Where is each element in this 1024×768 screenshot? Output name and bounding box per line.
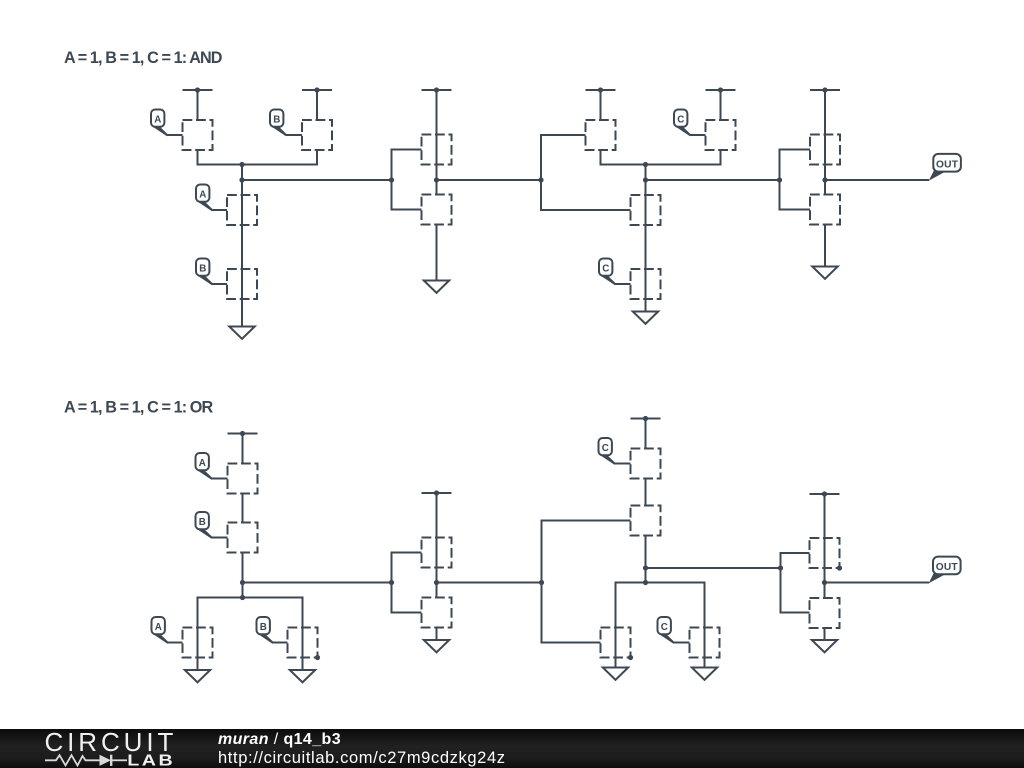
- svg-text:LAB: LAB: [127, 751, 175, 768]
- transistor Q24 NMOS (output inverter) (open switch): [810, 598, 840, 628]
- ground GND3: [633, 312, 658, 324]
- junction stage3 gate fork (OR): [539, 580, 544, 585]
- svg-text:B: B: [199, 517, 206, 528]
- wire stage2 gate fork to Q5,Q6: [392, 150, 422, 210]
- label tag A (gate of Q1): [151, 110, 169, 137]
- svg-text:muran / q14_b3: muran / q14_b3: [218, 731, 341, 748]
- junction node N2 (stage2 output): [434, 177, 439, 182]
- label tag B (gate of Q4): [196, 259, 214, 286]
- transistor Q3 NMOS gate A (closed switch): [227, 195, 257, 225]
- junction stray node at Q16 corner: [315, 655, 320, 660]
- wire bus N2 to stage3 gates: [437, 179, 542, 181]
- junction node N1 (PMOS drains join): [239, 162, 244, 167]
- wire OUT to Q24 drain: [824, 583, 826, 599]
- svg-text:OUT: OUT: [936, 159, 959, 170]
- transistor Q12 NMOS (output inverter) (open switch): [810, 195, 840, 225]
- ground GND7: [424, 640, 449, 652]
- transistor Q16 NMOS gate B (closed switch): [288, 628, 318, 658]
- transistor Q20 PMOS gate N5 (open switch): [631, 506, 661, 536]
- VDD supply bar V10 (stage4 PMOS): [810, 491, 840, 496]
- junction node OUT (OR): [822, 580, 827, 585]
- transistor Q22 NMOS gate C (closed switch): [690, 628, 720, 658]
- svg-text:C: C: [602, 263, 609, 274]
- transistor Q10 NMOS gate C (closed switch): [631, 269, 661, 299]
- wire NMOS fork bar to Q15,Q16 grounds: [198, 598, 303, 671]
- wire NMOS fork bar to Q21,Q22 grounds: [616, 583, 705, 668]
- wire V3 through Q5 to node N2: [436, 90, 438, 180]
- junction stage3 gate fork: [538, 177, 543, 182]
- wire gate of A (gate of Q15): [168, 642, 183, 644]
- transistor Q13 PMOS gate A (open switch): [228, 464, 258, 494]
- wire V2 to Q2 drain: [316, 90, 318, 120]
- svg-text:A: A: [155, 622, 162, 633]
- svg-text:B: B: [199, 263, 206, 274]
- wire gate of B (gate of Q4): [212, 283, 227, 285]
- wire V1 to Q1 drain: [197, 90, 199, 120]
- wire N5 to Q18 drain: [436, 583, 438, 598]
- label tag B (gate of Q16): [257, 617, 275, 644]
- svg-text:B: B: [273, 114, 280, 125]
- transistor Q17 PMOS (inverter) (closed switch): [422, 538, 452, 568]
- VDD supply bar V9 (stage3 PMOS series): [631, 416, 661, 421]
- ground GND4: [812, 267, 837, 279]
- transistor Q7 PMOS gate N2 (open switch): [586, 120, 616, 150]
- junction node N3 on bus: [643, 177, 648, 182]
- svg-text:OUT: OUT: [936, 562, 959, 573]
- transistor Q18 NMOS (inverter) (open switch): [422, 598, 452, 628]
- wire gate of B (gate of Q2): [286, 134, 302, 136]
- transistor Q11 PMOS (output inverter) (closed switch): [810, 135, 840, 165]
- label tag C (gate of Q10): [599, 259, 617, 286]
- junction stage2 gate fork (OR): [389, 580, 394, 585]
- transistor Q19 PMOS gate C (open switch): [631, 449, 661, 479]
- footer bar: [0, 729, 1024, 768]
- transistor Q1 PMOS gate A (open switch): [183, 120, 213, 150]
- VDD supply bar V1 (stage1 PMOS A): [183, 87, 213, 92]
- label tag B (gate of Q2): [270, 110, 288, 137]
- wire stage2 gate fork to Q17,Q18: [392, 553, 422, 613]
- wire N1 through Q3,Q4 to ground: [241, 180, 243, 327]
- ground GND1: [229, 327, 254, 339]
- wire Q12 source to ground: [824, 225, 826, 267]
- svg-text:A: A: [154, 114, 161, 125]
- transistor Q23 PMOS (output inverter) (closed switch): [810, 538, 840, 568]
- wire Q19 source to Q20 drain: [645, 479, 647, 506]
- junction node N1 on bus: [239, 177, 244, 182]
- svg-text:http://circuitlab.com/c27m9cdz: http://circuitlab.com/c27m9cdzkg24z: [218, 749, 506, 767]
- VDD supply bar V3 (stage2 PMOS): [422, 87, 452, 92]
- wire N1 down to bus: [241, 165, 243, 181]
- wire bus N1 to stage2 gates: [242, 179, 392, 181]
- transistor Q9 NMOS gate N2 (closed switch): [631, 195, 661, 225]
- wire V7 to Q13 drain: [242, 434, 244, 464]
- transistor Q5 PMOS (inverter) (closed switch): [422, 135, 452, 165]
- wire Q7 source to node N3: [601, 150, 646, 165]
- svg-text:C: C: [661, 622, 668, 633]
- wire Q1 source to node N1: [198, 150, 243, 165]
- wire gate of C (gate of Q10): [615, 283, 631, 285]
- wire V6 through Q11 to node OUT: [824, 90, 826, 180]
- junction node N6 (NOR output): [643, 565, 648, 570]
- svg-text:A: A: [199, 189, 206, 200]
- label tag A (gate of Q13): [196, 453, 214, 480]
- wire N4 down to NMOS fork: [242, 583, 244, 598]
- wire stage4 gate fork to Q11,Q12: [780, 150, 811, 210]
- label tag OUT (AND output): [929, 154, 961, 181]
- wire bus N4 to stage2 gates: [243, 582, 392, 584]
- wire Q2 source to node N1: [242, 150, 317, 165]
- wire N3 through Q9,Q10 to ground: [645, 180, 647, 312]
- wire V8 through Q17 to node N5: [436, 493, 438, 583]
- label tag C (gate of Q19): [599, 438, 617, 465]
- junction stage4 gate fork: [777, 177, 782, 182]
- wire gate of A (gate of Q1): [167, 134, 183, 136]
- wire Q8 source to node N3: [646, 150, 721, 165]
- svg-text:B: B: [260, 622, 267, 633]
- VDD supply bar V4 (stage3 PMOS left): [586, 87, 616, 92]
- transistor Q4 NMOS gate B (closed switch): [227, 269, 257, 299]
- wire node OUT to OUT flag: [825, 179, 929, 181]
- label tag C (gate of Q22): [658, 617, 676, 644]
- wire stage4 gate fork to Q23,Q24: [781, 553, 810, 613]
- VDD supply bar V8 (stage2 PMOS OR): [422, 490, 452, 495]
- junction stage2 gate fork: [389, 177, 394, 182]
- wire OUT to Q12 drain: [824, 180, 826, 195]
- transistor Q14 PMOS gate B (open switch): [228, 523, 258, 553]
- junction stray node at Q23 corner: [837, 565, 842, 570]
- transistor Q21 NMOS gate N5 (closed switch): [601, 628, 631, 658]
- wire gate of A (gate of Q13): [212, 478, 228, 480]
- wire gate of C (gate of Q22): [674, 642, 690, 644]
- junction node N3 (PMOS drains join): [643, 162, 648, 167]
- VDD supply bar V2 (stage1 PMOS B): [302, 87, 332, 92]
- VDD supply bar V6 (stage4 PMOS): [810, 87, 840, 92]
- junction stage4 gate fork (OR): [778, 565, 783, 570]
- svg-text:A: A: [199, 458, 206, 469]
- wire bus N5 to stage3 gates: [437, 582, 542, 584]
- VDD supply bar V7 (stage1 PMOS series): [228, 431, 258, 436]
- label tag B (gate of Q14): [196, 512, 214, 539]
- transistor Q15 NMOS gate A (closed switch): [183, 628, 213, 658]
- wire N6 down to NMOS fork: [645, 568, 647, 583]
- transistor Q2 PMOS gate B (open switch): [302, 120, 332, 150]
- wire Q13 source to Q14 drain: [242, 494, 244, 523]
- transistor Q8 PMOS gate C (open switch): [706, 120, 736, 150]
- wire V10 through Q23 to node OUT: [824, 494, 826, 583]
- wire Q20 source to node N6: [645, 536, 647, 569]
- logo diode symbol: [100, 755, 128, 766]
- wire Q6 source to ground: [436, 225, 438, 281]
- junction node N4 (NOR output): [240, 580, 245, 585]
- wire stage3 gate fork to Q20,Q21: [542, 521, 631, 643]
- wire gate of C (gate of Q19): [615, 463, 631, 465]
- junction NMOS fork node: [240, 595, 245, 600]
- wire V5 to Q8 drain: [720, 90, 722, 120]
- wire Q24 source to ground: [824, 628, 826, 640]
- label tag C (gate of Q8): [674, 110, 692, 137]
- ground GND8: [603, 668, 628, 680]
- wire gate of B (gate of Q16): [273, 642, 288, 644]
- wire gate of C (gate of Q8): [690, 134, 706, 136]
- label tag OUT (OR output): [929, 557, 961, 584]
- svg-text:A = 1, B = 1, C = 1: AND: A = 1, B = 1, C = 1: AND: [64, 49, 223, 67]
- wire bus N6 to stage4 gates: [646, 567, 781, 569]
- wire gate of A (gate of Q3): [212, 209, 227, 211]
- VDD supply bar V5 (stage3 PMOS C): [706, 87, 736, 92]
- wire N3 down to bus: [645, 165, 647, 181]
- ground GND6: [290, 670, 315, 682]
- wire Q18 source to ground: [436, 628, 438, 641]
- wire gate of B (gate of Q14): [212, 537, 228, 539]
- wire Q14 source to node N4: [242, 553, 244, 583]
- junction NMOS fork node stage3: [643, 580, 648, 585]
- wire V4 to Q7 drain: [600, 90, 602, 120]
- logo resistor zigzag: [45, 755, 100, 765]
- junction node OUT (AND): [822, 177, 827, 182]
- wire N2 to Q6 drain: [436, 180, 438, 195]
- junction stray node at Q21 corner: [628, 655, 633, 660]
- wire V9 to Q19 drain: [645, 419, 647, 449]
- ground GND2: [424, 281, 449, 293]
- label tag A (gate of Q15): [152, 617, 170, 644]
- ground GND5: [185, 670, 210, 682]
- wire stage3 gate fork to Q7,Q9: [541, 135, 631, 210]
- svg-text:C: C: [602, 443, 609, 454]
- svg-text:C: C: [677, 114, 684, 125]
- junction node N5 (stage2 output): [434, 580, 439, 585]
- ground GND10: [812, 640, 837, 652]
- ground GND9: [692, 668, 717, 680]
- label tag A (gate of Q3): [196, 185, 214, 212]
- wire node OUT to OUT flag (OR): [825, 582, 930, 584]
- transistor Q6 NMOS (inverter) (open switch): [422, 195, 452, 225]
- wire bus N3 to stage4 gates: [646, 179, 780, 181]
- svg-text:A = 1, B = 1, C = 1: OR: A = 1, B = 1, C = 1: OR: [64, 399, 213, 417]
